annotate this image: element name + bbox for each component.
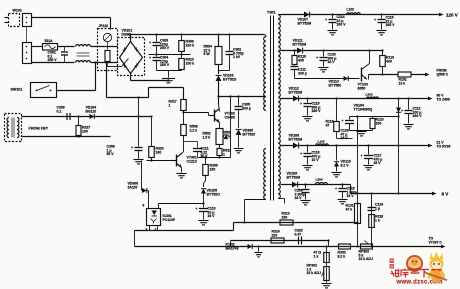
- svg-text:6: 6: [143, 204, 145, 208]
- svg-text:TY194080Q: TY194080Q: [354, 107, 373, 111]
- svg-text:15 k ADJ: 15 k ADJ: [307, 271, 321, 275]
- svg-text:15 k ADJ: 15 k ADJ: [359, 257, 373, 261]
- svg-text:0.47: 0.47: [295, 232, 302, 236]
- svg-text:+: +: [149, 56, 151, 60]
- svg-text:TO Z400: TO Z400: [437, 98, 450, 102]
- svg-text:+: +: [131, 146, 133, 150]
- svg-text:430: 430: [298, 58, 304, 62]
- svg-text:160 V: 160 V: [386, 23, 396, 27]
- svg-text:BG110: BG110: [86, 109, 97, 113]
- svg-text:+: +: [300, 102, 302, 106]
- svg-text:180: 180: [156, 150, 162, 154]
- svg-text:1: 1: [169, 103, 171, 107]
- svg-text:10 V: 10 V: [312, 158, 320, 162]
- svg-text:16 V: 16 V: [295, 196, 303, 200]
- svg-text:C1213: C1213: [187, 159, 197, 163]
- svg-text:250 V: 250 V: [48, 58, 58, 62]
- svg-text:0.1: 0.1: [57, 109, 62, 113]
- svg-text:BYT52D: BYT52D: [223, 77, 237, 81]
- svg-text:8050: 8050: [358, 86, 366, 90]
- svg-text:BYT520: BYT520: [243, 132, 256, 136]
- svg-text:50 V: 50 V: [107, 152, 115, 156]
- svg-text:160 V: 160 V: [413, 114, 423, 118]
- svg-text:8.2 k: 8.2 k: [338, 254, 346, 258]
- svg-text:150: 150: [210, 167, 216, 171]
- svg-text:L303: L303: [366, 93, 373, 97]
- svg-text:PC113P: PC113P: [163, 218, 176, 222]
- svg-text:160 V: 160 V: [312, 109, 322, 113]
- svg-text:16 V: 16 V: [328, 60, 336, 64]
- svg-text:2.2 k: 2.2 k: [190, 128, 198, 132]
- svg-text:16 V: 16 V: [341, 136, 349, 140]
- svg-text:BYT560: BYT560: [329, 83, 342, 87]
- svg-text:120 V: 120 V: [446, 13, 458, 18]
- svg-text:C3480: C3480: [225, 115, 235, 119]
- svg-text:3A157: 3A157: [128, 185, 138, 189]
- svg-text:+: +: [335, 187, 337, 191]
- svg-text:25 V: 25 V: [374, 161, 382, 165]
- svg-text:1 kV: 1 kV: [233, 55, 241, 59]
- svg-text:150: 150: [376, 121, 382, 125]
- svg-text:47 k: 47 k: [346, 207, 353, 211]
- svg-text:BYT52M: BYT52M: [298, 21, 312, 25]
- svg-text:1 k: 1 k: [375, 218, 380, 222]
- svg-text:+: +: [401, 109, 403, 113]
- svg-text:BYT52M: BYT52M: [289, 137, 303, 141]
- svg-text:T301: T301: [267, 11, 276, 15]
- svg-text:L304: L304: [316, 178, 323, 182]
- svg-text:Q506 C: Q506 C: [437, 73, 449, 77]
- svg-text:+: +: [325, 18, 327, 22]
- svg-text:250 V: 250 V: [160, 63, 170, 67]
- svg-text:+: +: [342, 119, 344, 123]
- svg-text:L102: L102: [347, 8, 355, 12]
- svg-text:FROM FBT: FROM FBT: [29, 127, 49, 131]
- svg-text:+: +: [361, 154, 363, 158]
- svg-text:BYT52O: BYT52O: [207, 192, 221, 196]
- svg-text:8.2 V: 8.2 V: [341, 163, 350, 167]
- svg-text:250 V: 250 V: [160, 46, 170, 50]
- svg-text:531A: 531A: [45, 39, 54, 43]
- svg-text:BYT52M: BYT52M: [287, 175, 301, 179]
- svg-text:5 W: 5 W: [204, 52, 211, 56]
- svg-text:SW101: SW101: [11, 88, 23, 92]
- svg-text:+: +: [316, 56, 318, 60]
- svg-text:VT307 C: VT307 C: [429, 241, 443, 245]
- svg-text:W101: W101: [13, 9, 22, 13]
- svg-text:+: +: [196, 207, 198, 211]
- svg-text:1 μ: 1 μ: [375, 206, 380, 210]
- svg-text:TO RY26: TO RY26: [437, 145, 451, 149]
- svg-text:330 p: 330 p: [242, 106, 251, 110]
- svg-text:1.5 k: 1.5 k: [203, 135, 211, 139]
- svg-text:50 V: 50 V: [201, 154, 209, 158]
- svg-text:100 k: 100 k: [186, 43, 195, 47]
- svg-text:220: 220: [272, 233, 278, 237]
- svg-text:100 k: 100 k: [186, 61, 195, 65]
- svg-text:16 V: 16 V: [208, 214, 216, 218]
- svg-text:+: +: [374, 18, 376, 22]
- svg-text:160 V: 160 V: [337, 23, 347, 27]
- svg-text:100: 100: [82, 129, 88, 133]
- svg-text:JP120: JP120: [99, 24, 109, 28]
- svg-text:430: 430: [386, 59, 392, 63]
- svg-text:330 p: 330 p: [298, 71, 307, 75]
- svg-text:1: 1: [223, 152, 225, 156]
- svg-text:8 V: 8 V: [442, 192, 449, 197]
- svg-text:BYT52M: BYT52M: [289, 90, 303, 94]
- svg-text:47: 47: [326, 123, 330, 127]
- svg-text:+: +: [300, 152, 302, 156]
- svg-text:+: +: [149, 41, 151, 45]
- svg-text:150: 150: [282, 215, 288, 219]
- svg-text:16 V: 16 V: [347, 194, 355, 198]
- svg-text:1 k: 1 k: [314, 254, 319, 258]
- svg-text:MA1743: MA1743: [226, 246, 239, 250]
- svg-text:L103: L103: [318, 140, 325, 144]
- svg-text:BYT52M: BYT52M: [293, 42, 307, 46]
- svg-text:13 k: 13 k: [399, 81, 406, 85]
